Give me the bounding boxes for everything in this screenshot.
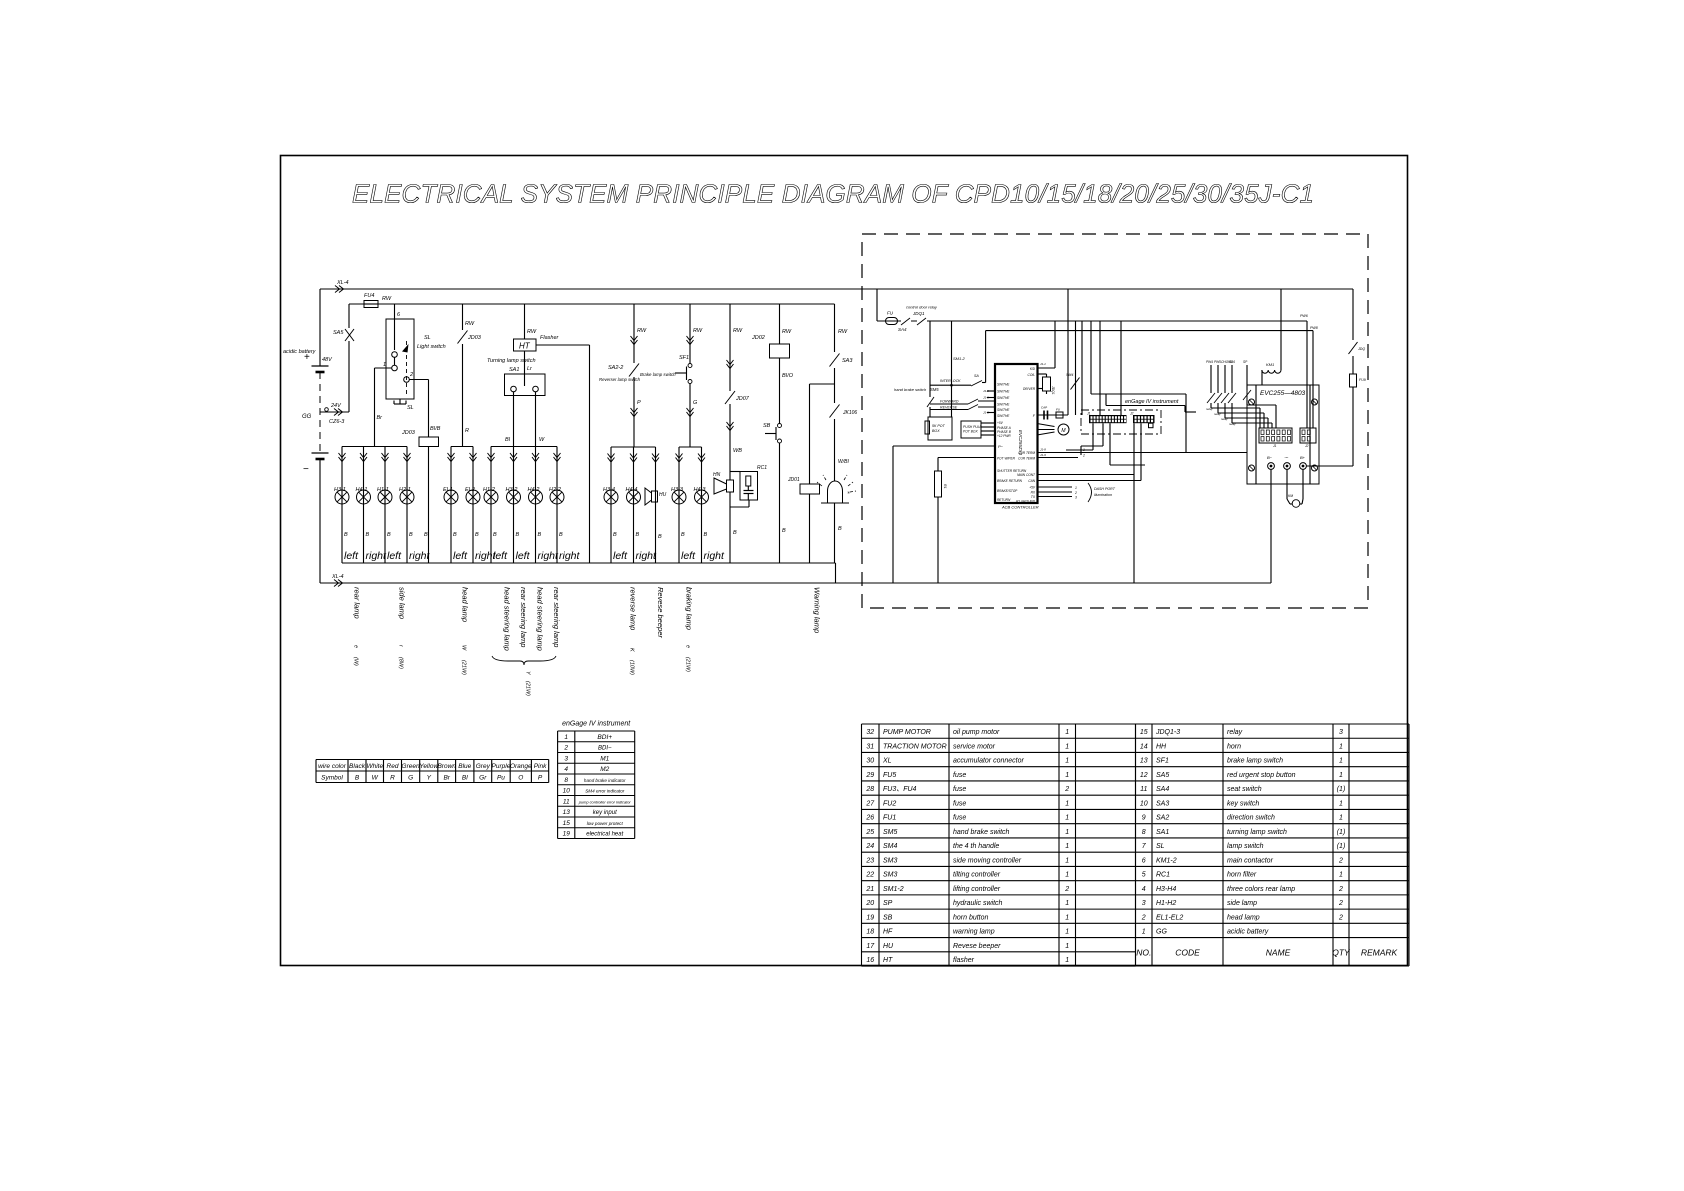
wire PW drop [1306,321,1308,428]
svg-text:left: left [681,550,696,562]
svg-text:Y: Y [525,671,531,675]
svg-text:28: 28 [865,786,874,793]
svg-text:2: 2 [1064,786,1069,793]
wire lamp column H1-1 [384,447,386,564]
svg-text:SM3: SM3 [883,872,898,879]
relay contact JDQ1 [917,317,927,326]
svg-text:XL-4: XL-4 [336,280,349,286]
wire P- supply [893,445,995,447]
svg-text:8: 8 [564,777,568,784]
wire lamp column EL2 [472,447,474,564]
border frame [281,156,1408,966]
wire JD03 down [428,447,430,564]
svg-text:DRIVER: DRIVER [1023,387,1036,391]
svg-text:CAN: CAN [1028,479,1035,483]
svg-text:BI: BI [505,437,511,443]
wire B- to return [1270,469,1272,583]
svg-text:B: B [782,528,786,534]
svg-text:right: right [559,550,581,562]
svg-text:12: 12 [1140,772,1148,779]
svg-text:POT BOX: POT BOX [963,430,978,434]
svg-text:H3-H4: H3-H4 [1156,886,1176,893]
svg-text:RW: RW [637,328,647,334]
key switch SA3 [834,304,836,563]
svg-text:BRAKE/STOP: BRAKE/STOP [997,489,1018,493]
svg-text:1: 1 [1339,743,1343,750]
svg-text:SP: SP [883,900,893,907]
svg-text:B: B [658,534,662,540]
wire reverse [930,409,968,411]
svg-text:G: G [693,400,698,406]
svg-text:(8W): (8W) [398,657,404,669]
svg-text:enGage IV instrument: enGage IV instrument [562,721,631,728]
svg-text:SW/THE: SW/THE [997,408,1010,412]
svg-text:KM: KM [1288,494,1293,498]
wire CUR TERM pair [1037,452,1247,454]
wire XL-4 top bus [320,288,1353,290]
svg-text:B: B [613,532,617,538]
svg-text:WB: WB [733,448,742,454]
wire CAN loop [1090,321,1092,394]
svg-text:pump controller error indicato: pump controller error indicator [578,799,632,804]
svg-text:1: 1 [1065,929,1069,936]
switch SA4 [901,317,911,326]
wire F with capacitor and fuse [1037,414,1068,416]
svg-text:G: G [408,775,413,782]
current sensor loop [1286,469,1288,499]
svg-text:W: W [539,437,545,443]
svg-text:SL: SL [407,405,414,411]
svg-text:rear steering lamp: rear steering lamp [552,587,561,647]
svg-text:1: 1 [1065,743,1069,750]
svg-text:B: B [636,532,640,538]
svg-text:1: 1 [1339,872,1343,879]
svg-text:22: 22 [865,872,874,879]
svg-text:SA3: SA3 [1156,800,1169,807]
svg-text:SM3: SM3 [883,857,898,864]
ground SL [399,399,401,404]
svg-text:1: 1 [564,734,568,741]
lamp H4-4 [627,490,641,504]
svg-text:PUMP MOTOR: PUMP MOTOR [883,729,931,736]
svg-text:CUR TERM: CUR TERM [1018,457,1035,461]
node bus group4 [679,446,702,448]
svg-text:KSI: KSI [1030,367,1035,371]
svg-text:R: R [390,775,395,782]
svg-text:(21W): (21W) [461,660,467,675]
svg-text:J1-6: J1-6 [983,396,989,400]
svg-text:relay: relay [1221,417,1228,421]
svg-text:XL-4: XL-4 [331,574,344,580]
svg-text:brake lamp switch: brake lamp switch [1227,758,1283,765]
wire HT output [536,344,590,346]
svg-text:19: 19 [866,914,874,921]
svg-text:enGage IV instrument: enGage IV instrument [1125,399,1179,405]
svg-text:SL: SL [424,335,431,341]
svg-text:horn filter: horn filter [1227,872,1257,879]
svg-text:head steering lamp: head steering lamp [503,587,512,651]
svg-text:5: 5 [1142,872,1146,879]
wire KSI [1037,367,1055,369]
svg-text:(1): (1) [1337,843,1346,850]
svg-text:11: 11 [1140,786,1147,793]
svg-text:White: White [366,763,383,770]
svg-text:the 4 th handle: the 4 th handle [953,843,999,850]
BOM table right [1136,723,1410,725]
motor M1 [1037,424,1055,427]
svg-text:Orange: Orange [510,763,532,770]
svg-text:19: 19 [563,831,571,838]
svg-text:POT WIPER: POT WIPER [997,457,1016,461]
wire MAIN CONT [1037,474,1134,476]
svg-text:XL: XL [882,758,892,765]
svg-text:W/BI: W/BI [838,459,849,465]
svg-text:1: 1 [1065,843,1069,850]
svg-text:lamp switch: lamp switch [1227,843,1264,850]
svg-text:left: left [453,550,468,562]
svg-text:20: 20 [865,900,874,907]
svg-text:right: right [636,550,658,562]
wire lamp column H1-2 [490,447,492,564]
svg-text:key input: key input [593,810,617,816]
svg-text:1: 1 [1065,900,1069,907]
svg-text:SM1-2: SM1-2 [883,886,904,893]
svg-text:H3-4: H3-4 [603,487,615,493]
pot box SM2 [961,421,981,438]
lamp H1-2 [484,490,498,504]
svg-text:red urgent stop button: red urgent stop button [1227,772,1296,779]
svg-text:right: right [704,550,726,562]
svg-text:JK106: JK106 [842,410,857,416]
aux switch cluster [1210,365,1212,393]
svg-text:R: R [465,428,469,434]
svg-text:Gr: Gr [479,775,487,782]
svg-text:RW: RW [838,329,848,335]
svg-text:M2: M2 [600,766,609,773]
wire SB down [779,443,781,563]
svg-text:relay: relay [1206,407,1213,411]
svg-text:BI/O: BI/O [782,373,794,379]
svg-text:1: 1 [1065,800,1069,807]
svg-text:JD01: JD01 [787,477,800,483]
wire lamp column H2-2 [556,447,558,564]
svg-text:H1-H2: H1-H2 [1156,900,1176,907]
svg-text:13: 13 [563,809,571,816]
svg-text:1: 1 [1065,872,1069,879]
wire lamp column H4-1 [363,447,365,564]
svg-text:B: B [344,532,348,538]
svg-text:MAIN CONT: MAIN CONT [1017,473,1036,477]
svg-text:2: 2 [1082,454,1085,458]
wire lamp column EL1 [450,447,452,564]
svg-text:relay: relay [1214,412,1221,416]
svg-text:right: right [366,550,388,562]
svg-text:18: 18 [866,929,874,936]
svg-text:wire color: wire color [318,763,347,770]
svg-text:JD02: JD02 [751,335,765,341]
svg-text:SW/THE: SW/THE [997,403,1010,407]
svg-text:+12 PWR: +12 PWR [997,434,1011,438]
svg-text:BDI+: BDI+ [597,734,612,741]
svg-text:SA5: SA5 [333,330,344,336]
battery GG dashed mid [319,372,321,453]
svg-text:tilting controller: tilting controller [953,872,1001,879]
lamp H4-2 [529,490,543,504]
resistor R1 [935,471,942,497]
svg-text:11: 11 [563,798,570,805]
wire lamp return bus [342,562,836,564]
svg-text:PW8: PW8 [1310,326,1318,330]
wire B+ feed [1306,465,1353,467]
svg-text:FU4: FU4 [364,293,374,299]
svg-text:1: 1 [1065,758,1069,765]
svg-text:B+: B+ [1300,455,1306,460]
svg-text:10: 10 [1140,800,1148,807]
svg-text:M1: M1 [600,755,609,762]
wire XL-4 return bus [320,582,1271,584]
svg-text:1: 1 [1142,929,1146,936]
relay coil JDQ1 [1037,373,1047,375]
throttle pot drop [951,321,953,417]
svg-text:SA5: SA5 [1156,772,1169,779]
wire SL pin1 Br [375,367,392,369]
svg-text:24V: 24V [330,403,342,409]
svg-text:Grey: Grey [476,763,491,770]
svg-text:1: 1 [1339,800,1343,807]
svg-text:H4-1: H4-1 [356,487,368,493]
battery GG cell 2 [312,452,329,454]
svg-text:side moving controller: side moving controller [953,857,1022,864]
svg-text:SM4: SM4 [883,843,898,850]
instrument connector box [1081,410,1161,434]
svg-text:J2: J2 [1305,444,1309,448]
svg-text:CODE: CODE [1175,948,1200,958]
svg-text:SW/THE: SW/THE [997,396,1010,400]
svg-text:RETURN: RETURN [997,498,1011,502]
wires pot to controller [981,422,995,424]
svg-text:J1-9: J1-9 [1040,453,1046,457]
svg-text:SM5: SM5 [930,387,939,392]
svg-text:RW: RW [693,328,703,334]
svg-text:P: P [637,400,641,406]
svg-text:SL: SL [1156,843,1165,850]
svg-text:26: 26 [865,815,874,822]
svg-text:acidic battery: acidic battery [1227,929,1269,936]
svg-text:ELECTRICAL SYSTEM PRINCIPLE DI: ELECTRICAL SYSTEM PRINCIPLE DIAGRAM OF C… [352,179,1314,209]
wire HT feed [524,304,526,339]
svg-text:EVC255—4803: EVC255—4803 [1260,390,1306,397]
svg-text:hydraulic switch: hydraulic switch [953,900,1003,907]
svg-text:FU5: FU5 [883,772,896,779]
aux switch SP [1246,365,1248,390]
svg-text:fuse: fuse [953,786,966,793]
svg-text:−: − [303,464,309,475]
wire key feed drop [876,289,878,321]
wire interlock feed [986,330,1313,332]
svg-text:W: W [372,775,379,782]
svg-text:1: 1 [1065,829,1069,836]
svg-text:B: B [475,532,479,538]
svg-text:1: 1 [1339,815,1343,822]
svg-text:48V: 48V [322,357,333,363]
svg-text:GG: GG [1156,929,1167,936]
svg-text:PW6: PW6 [1300,314,1308,318]
svg-text:control door relay: control door relay [906,305,938,310]
svg-text:reverse lamp: reverse lamp [629,587,638,630]
svg-text:27: 27 [865,800,875,807]
svg-text:9: 9 [1142,815,1146,822]
svg-text:SA6: SA6 [1229,360,1235,364]
wire CAN [1037,480,1141,482]
svg-text:HT: HT [519,342,531,351]
svg-text:25: 25 [865,829,874,836]
svg-text:4: 4 [564,766,568,773]
svg-text:3: 3 [1339,729,1343,736]
svg-text:Flasher: Flasher [540,335,560,341]
wire lamp supply bus [349,303,835,305]
switch JK106 [829,403,840,419]
svg-text:Revese beeper: Revese beeper [656,587,665,638]
svg-text:left: left [344,550,359,562]
lamp H3-2 [507,490,521,504]
svg-text:B: B [409,532,413,538]
svg-text:lifting controller: lifting controller [953,886,1001,893]
svg-text:17: 17 [866,943,875,950]
svg-text:HH: HH [1156,743,1167,750]
svg-text:2: 2 [1338,914,1343,921]
svg-text:head lamp: head lamp [461,587,470,622]
svg-text:J1: J1 [1273,444,1277,448]
light switch SL feed pin 6 [394,304,396,350]
svg-text:left: left [613,550,628,562]
svg-text:GG: GG [302,414,312,420]
svg-text:oil pump motor: oil pump motor [953,729,1000,736]
svg-text:Pink: Pink [534,763,547,770]
svg-text:HT: HT [883,957,893,964]
fuse FU4 [364,301,378,308]
switch SA2-2 [633,304,635,447]
turning lamp switch SA1 contacts [511,386,517,392]
lamp H1-1 [378,490,392,504]
horn filter RC1 [740,472,758,501]
svg-text:INTERLOCK: INTERLOCK [940,379,961,383]
svg-text:16: 16 [866,957,874,964]
lamp H3-1 [335,490,349,504]
svg-text:horn button: horn button [953,914,989,921]
wire lamp column H4-4 [633,447,635,563]
svg-text:QTY: QTY [1332,948,1351,958]
lamp H3-4 [604,490,618,504]
brake lamp switch SF1 [689,304,691,363]
svg-text:3: 3 [1075,496,1077,500]
svg-text:Warning lamp: Warning lamp [813,587,822,633]
svg-text:J1-8: J1-8 [1040,448,1046,452]
svg-text:hand brake switch: hand brake switch [953,829,1010,836]
brace steering lamps [492,656,556,665]
EVC connector J2 [1300,428,1316,443]
svg-text:HU: HU [659,492,667,498]
svg-text:left: left [516,550,531,562]
connector JD01 [809,384,811,563]
svg-text:B: B [453,532,457,538]
svg-text:2: 2 [1338,900,1343,907]
horn filter RC1 branch [730,471,740,473]
svg-text:ACB CONTROLLER: ACB CONTROLLER [1001,505,1039,510]
svg-text:(21W): (21W) [525,681,531,696]
svg-text:SF1: SF1 [1156,758,1169,765]
hand brake switch SM5 [929,321,931,397]
svg-text:FU2: FU2 [883,800,896,807]
node bus group2a [451,446,473,448]
wire pot low [938,457,995,459]
wire lamp column H3-4 [610,447,612,563]
svg-text:RW: RW [733,328,743,334]
switch JDQ2 on B+ [1348,340,1359,356]
svg-text:Yellow: Yellow [419,763,439,770]
switch SM4 [1070,376,1081,391]
svg-text:REVERSE: REVERSE [940,406,958,410]
wire control feed [877,320,1307,322]
svg-text:fuse: fuse [953,800,966,807]
wire warning to return [835,563,837,583]
svg-text:B: B [366,532,370,538]
svg-text:5K POT: 5K POT [932,424,946,428]
svg-text:B: B [681,532,685,538]
svg-text:H3-3: H3-3 [671,487,684,493]
svg-text:head steering lamp: head steering lamp [536,587,545,651]
svg-text:EL1-EL2: EL1-EL2 [1156,914,1183,921]
switch JD03 contact R column [462,304,464,447]
svg-text:HF: HF [883,929,893,936]
svg-text:RC1: RC1 [1156,872,1170,879]
wire lamp column H2-1 [406,447,408,564]
lamp H3-3 [672,490,686,504]
turning lamp switch SA1 box [524,351,526,374]
beeper HU [652,491,658,502]
svg-text:2: 2 [1074,491,1077,495]
svg-text:TRACTION MOTOR: TRACTION MOTOR [883,743,947,750]
svg-text:SB: SB [763,423,771,429]
wire colour legend table [316,759,549,761]
fuse FU9 on B+ [1350,374,1357,387]
svg-text:NO.: NO. [1136,948,1151,958]
svg-text:SM4 error indicator: SM4 error indicator [585,789,625,794]
svg-text:DASH PORT: DASH PORT [1094,487,1116,491]
BOM table left [862,723,1136,725]
svg-text:(1): (1) [1337,786,1346,793]
svg-text:(10W): (10W) [629,660,635,675]
svg-text:H1-1: H1-1 [377,487,389,493]
svg-text:horn: horn [1227,743,1241,750]
svg-text:HU: HU [883,943,894,950]
svg-text:H2-2: H2-2 [549,487,561,493]
svg-text:e: e [353,645,359,648]
wire SL pin2 to JD03 [409,379,428,381]
dashed panel border [862,234,1368,608]
svg-text:main contactor: main contactor [1227,857,1274,864]
svg-text:low power protect: low power protect [587,821,624,826]
svg-text:service motor: service motor [953,743,996,750]
svg-text:JDQ1-3: JDQ1-3 [1155,729,1180,736]
light switch SL lever [406,341,408,396]
svg-text:R1: R1 [943,484,947,489]
svg-text:Light switch: Light switch [417,344,446,350]
svg-text:Blue: Blue [458,763,471,770]
svg-text:RW: RW [382,296,392,302]
svg-text:SF1: SF1 [679,355,689,361]
svg-text:acidic battery: acidic battery [283,349,317,355]
svg-text:J1-6: J1-6 [983,411,989,415]
